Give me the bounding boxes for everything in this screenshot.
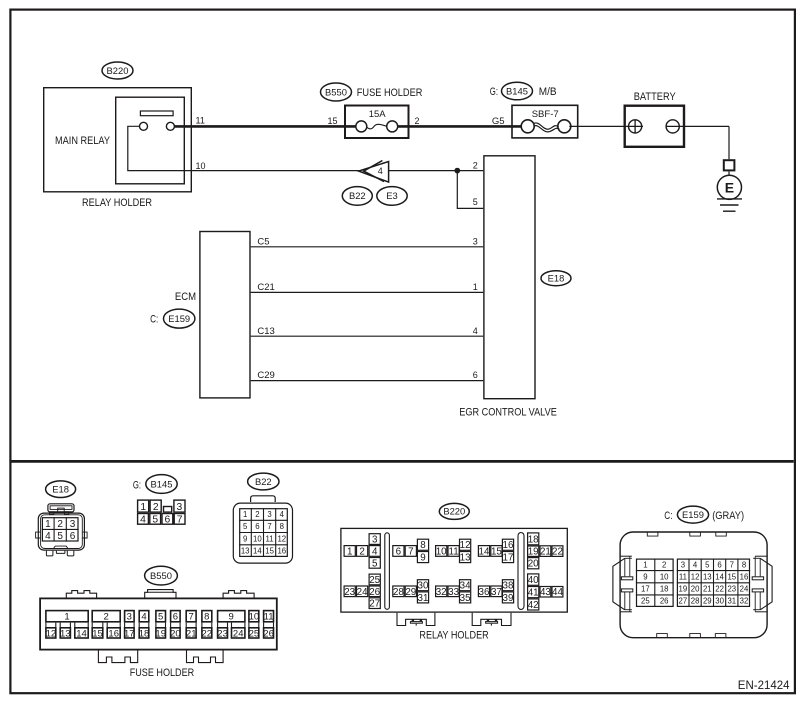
svg-text:4: 4 [378,166,383,176]
svg-text:1: 1 [140,502,146,513]
svg-text:16: 16 [740,573,749,582]
connector E159 pin grid left block [637,559,674,606]
wire junction to EGR pin 5 [457,171,483,209]
svg-text:B22: B22 [255,476,272,487]
svg-text:7: 7 [267,522,271,531]
wire battery negative to ground block [666,125,729,127]
wire ECM C13 to EGR pin 4 [251,335,484,337]
svg-text:20: 20 [528,559,539,570]
svg-text:25: 25 [369,575,380,586]
svg-text:1: 1 [45,519,51,530]
svg-text:25: 25 [249,628,260,639]
ground connector block [724,160,735,170]
svg-text:18: 18 [528,534,539,545]
svg-text:E18: E18 [52,484,69,495]
connector label B145 [502,82,533,100]
svg-text:4: 4 [473,326,478,336]
svg-text:3: 3 [267,510,271,519]
fuse holder box [345,106,409,139]
svg-text:E159: E159 [682,509,704,520]
svg-text:E: E [725,179,734,195]
svg-text:1: 1 [643,560,647,569]
svg-text:28: 28 [691,597,700,606]
svg-text:17: 17 [641,585,650,594]
svg-text:15: 15 [491,547,502,558]
connector label B550 (pinout) [145,566,178,585]
svg-text:43: 43 [540,587,551,598]
connector E159 body [620,532,767,638]
svg-text:22: 22 [552,547,563,558]
svg-text:12: 12 [277,535,286,544]
svg-text:6: 6 [717,560,721,569]
connector E18 latch ears [50,512,54,515]
svg-text:15: 15 [92,628,103,639]
relay contact right [166,122,174,130]
svg-text:M/B: M/B [539,86,557,98]
B220 pins 40-44 [528,574,539,585]
battery positive terminal [629,120,642,133]
svg-text:10: 10 [253,535,262,544]
connector E159 pin grid right block [677,559,749,606]
svg-text:16: 16 [108,628,119,639]
svg-text:38: 38 [503,581,514,592]
svg-text:19: 19 [528,547,539,558]
connector label E3 [377,187,407,206]
svg-text:32: 32 [436,587,447,598]
connector E159 right wing [755,555,768,557]
connector label E159 (pinout) [677,506,708,523]
svg-text:5: 5 [243,522,248,531]
svg-text:26: 26 [369,587,380,598]
connector E159 top bumps [647,532,658,536]
svg-text:31: 31 [418,593,429,604]
connector label B220 (pinout) [439,503,469,519]
svg-text:12: 12 [460,540,471,551]
svg-text:3: 3 [473,236,478,246]
svg-text:B145: B145 [151,478,173,489]
svg-text:6: 6 [173,612,178,623]
svg-text:19: 19 [155,628,166,639]
svg-text:17: 17 [124,628,135,639]
SBF-7 fusible link box [512,105,578,138]
svg-text:11: 11 [679,573,687,582]
svg-text:14: 14 [253,547,262,556]
connector label E159 (top) [164,309,195,328]
battery negative terminal [666,120,679,133]
svg-text:4: 4 [45,531,51,542]
svg-text:2: 2 [359,547,364,558]
svg-text:7: 7 [177,515,183,526]
wire ECM C29 to EGR pin 6 [251,380,484,382]
svg-text:C29: C29 [257,370,274,381]
EGR control valve box [484,156,535,399]
connector label B22 (top) [342,187,372,206]
svg-text:B550: B550 [325,86,347,97]
relay holder outer box [44,88,192,192]
fuse holder B550 cells row 2 [46,628,56,638]
svg-text:8: 8 [204,612,209,623]
svg-text:12: 12 [46,628,57,639]
svg-text:24: 24 [233,628,244,639]
B220 pins 18-22 [528,533,539,545]
svg-text:23: 23 [344,587,355,598]
svg-text:2: 2 [104,612,109,623]
svg-text:22: 22 [715,585,724,594]
svg-text:24: 24 [357,587,368,598]
svg-text:B220: B220 [107,65,129,76]
connector label B22 (pinout) [248,473,279,490]
svg-text:4: 4 [141,612,146,623]
svg-text:8: 8 [742,560,746,569]
connector label B550 [321,83,352,101]
connector B22 body [233,503,292,563]
svg-text:1: 1 [347,547,352,558]
wire relay pin 10 (internal U-path to diode) [128,126,359,170]
svg-text:16: 16 [277,547,286,556]
connector B145 pin grid row 2 [138,514,149,525]
svg-text:11: 11 [449,547,459,558]
wire diode to EGR pin 2 [389,170,484,172]
svg-text:1: 1 [64,612,69,623]
svg-text:EN-21424: EN-21424 [738,680,790,692]
svg-text:21: 21 [540,547,551,558]
B220 pins 14-17 [478,546,489,557]
svg-text:FUSE HOLDER: FUSE HOLDER [130,667,195,679]
svg-text:G:: G: [133,479,141,491]
svg-text:5: 5 [158,612,163,623]
svg-text:2: 2 [415,116,420,126]
svg-text:8: 8 [280,522,284,531]
svg-text:18: 18 [139,628,150,639]
svg-text:15: 15 [265,547,274,556]
svg-text:11: 11 [264,612,274,623]
B220 pins 10-13 [436,546,447,557]
fuse holder B550 cell links [45,623,47,627]
svg-text:G5: G5 [492,116,505,127]
svg-text:13: 13 [241,547,250,556]
relay holder B220 bottom tab 2 [472,613,511,626]
svg-text:C:: C: [150,313,158,325]
B220 pins 32-35 [436,586,447,597]
svg-text:9: 9 [420,553,425,564]
svg-text:20: 20 [691,585,700,594]
ground symbol [717,198,742,200]
svg-text:G:: G: [490,86,498,98]
svg-text:9: 9 [643,573,647,582]
svg-text:7: 7 [189,612,194,623]
svg-text:2: 2 [57,519,63,530]
svg-text:BATTERY: BATTERY [634,91,676,103]
connector E18 body [38,513,84,550]
svg-text:10: 10 [249,612,260,623]
svg-text:3: 3 [681,560,685,569]
connector E159 bottom bumps [657,634,668,638]
svg-text:33: 33 [448,587,459,598]
svg-text:4: 4 [280,510,285,519]
B220 pins 6-9 [393,546,404,557]
B220 pins 28-31 [393,586,404,597]
svg-text:16: 16 [503,540,514,551]
SBF-7 fusible link element [521,120,534,133]
svg-text:5: 5 [152,515,158,526]
relay coil [140,111,173,116]
svg-text:3: 3 [70,519,76,530]
connector E18 pin grid [42,518,78,541]
B220 pins 23-27 [344,586,355,597]
wire ECM C5 to EGR pin 3 [251,246,484,248]
svg-text:26: 26 [660,597,669,606]
svg-text:9: 9 [229,612,234,623]
connector B145 pin grid row 1 [138,500,149,512]
svg-text:35: 35 [460,593,471,604]
wire ECM C21 to EGR pin 1 [251,291,484,293]
svg-text:39: 39 [503,593,514,604]
svg-text:(GRAY): (GRAY) [712,510,744,522]
svg-text:44: 44 [552,587,563,598]
ground node E [717,175,741,199]
connector label B220 (relay holder) [102,62,133,79]
svg-text:28: 28 [393,587,404,598]
svg-text:E159: E159 [168,313,190,324]
svg-text:26: 26 [263,628,274,639]
svg-text:4: 4 [372,547,378,558]
svg-text:9: 9 [243,535,247,544]
connector label E18 (top) [541,271,571,286]
ECM box [200,232,250,398]
relay holder B220 right slot [518,533,524,610]
connector B22 top bump [251,496,276,502]
connector E159 left wing [620,555,632,557]
svg-text:B550: B550 [150,570,172,581]
svg-text:10: 10 [196,161,206,171]
connector E18 side notches [36,532,41,538]
B220 pins 1-5 [344,546,355,557]
svg-text:B145: B145 [506,85,528,96]
svg-text:1: 1 [243,510,247,519]
svg-text:30: 30 [715,597,724,606]
svg-text:11: 11 [266,535,274,544]
svg-text:18: 18 [660,585,669,594]
junction node [455,168,460,173]
svg-text:C5: C5 [257,236,269,247]
svg-text:8: 8 [420,540,426,551]
svg-text:36: 36 [479,587,490,598]
svg-text:20: 20 [170,628,181,639]
svg-text:3: 3 [127,612,132,623]
svg-text:15A: 15A [369,109,387,120]
svg-text:21: 21 [186,628,197,639]
svg-text:5: 5 [372,558,378,569]
svg-text:FUSE HOLDER: FUSE HOLDER [357,87,423,99]
svg-text:25: 25 [641,597,650,606]
svg-text:2: 2 [473,161,478,171]
svg-text:14: 14 [715,573,724,582]
B220 pins 36-39 [478,586,489,597]
diode 4 (pass-through B22/E3) [359,162,389,183]
svg-text:C13: C13 [257,326,274,337]
svg-text:5: 5 [473,197,478,207]
fuse holder B550 top tabs [66,591,96,598]
svg-text:7: 7 [730,560,734,569]
svg-text:13: 13 [60,628,71,639]
svg-text:27: 27 [369,599,380,610]
relay holder B220 left slot [385,533,390,610]
svg-text:19: 19 [679,585,688,594]
wire relay pin 11 to fuse [175,125,357,128]
relay holder B220 bottom tab 1 [397,613,435,626]
svg-text:40: 40 [528,575,539,586]
wire SBF-7 to battery [569,125,643,127]
svg-text:30: 30 [418,581,429,592]
main relay inner box [116,97,185,184]
svg-text:13: 13 [703,573,712,582]
fuse holder B550 cells row 1 [46,611,88,622]
svg-text:42: 42 [528,600,539,611]
svg-text:B220: B220 [443,506,465,517]
svg-text:MAIN RELAY: MAIN RELAY [55,135,110,147]
svg-text:37: 37 [491,587,502,598]
svg-text:7: 7 [408,547,413,558]
svg-text:11: 11 [196,116,205,126]
svg-text:10: 10 [436,547,447,558]
svg-text:22: 22 [202,628,213,639]
svg-text:3: 3 [372,535,378,546]
svg-text:13: 13 [460,553,471,564]
svg-text:C:: C: [664,510,672,522]
connector label B145 (pinout) [146,475,177,494]
svg-text:E3: E3 [386,190,397,201]
svg-text:B22: B22 [349,190,366,201]
svg-text:5: 5 [705,560,710,569]
svg-text:EGR CONTROL VALVE: EGR CONTROL VALVE [459,407,557,419]
svg-text:12: 12 [691,573,700,582]
battery box [625,106,684,147]
svg-text:21: 21 [703,585,712,594]
fuse holder B550 bottom tabs [98,651,137,663]
svg-text:RELAY HOLDER: RELAY HOLDER [82,197,152,209]
connector E18 top tab [48,504,74,512]
svg-text:4: 4 [140,515,146,526]
svg-text:SBF-7: SBF-7 [532,109,559,120]
connector label E18 (pinout) [46,481,76,498]
svg-text:E18: E18 [548,273,565,284]
svg-text:C21: C21 [257,282,274,293]
svg-text:23: 23 [217,628,228,639]
fuse element [356,121,367,132]
svg-text:6: 6 [396,547,402,558]
svg-text:4: 4 [693,560,698,569]
svg-text:6: 6 [165,515,171,526]
svg-text:15: 15 [327,116,337,126]
svg-text:2: 2 [255,510,259,519]
svg-text:10: 10 [660,573,669,582]
svg-text:5: 5 [57,531,63,542]
svg-text:14: 14 [479,547,490,558]
connector B22 pin grid [240,509,288,557]
svg-text:29: 29 [405,587,416,598]
svg-text:34: 34 [460,581,471,592]
svg-text:2: 2 [662,560,666,569]
svg-text:ECM: ECM [175,291,196,303]
svg-text:15: 15 [727,573,736,582]
svg-text:6: 6 [70,531,76,542]
svg-text:2: 2 [153,502,159,513]
svg-text:29: 29 [703,597,712,606]
svg-text:27: 27 [679,597,688,606]
svg-text:31: 31 [727,597,736,606]
relay contact left [140,122,148,130]
relay holder B220 main box [341,528,567,612]
svg-text:17: 17 [503,553,514,564]
wire fuse to SBF-7 [398,125,521,128]
connector E18 bottom tabs [53,546,68,549]
svg-text:3: 3 [177,502,183,513]
svg-text:1: 1 [473,282,478,292]
svg-text:32: 32 [740,597,749,606]
fuse holder B550 main box [40,598,277,649]
svg-text:41: 41 [528,588,539,599]
svg-text:14: 14 [76,628,87,639]
svg-text:23: 23 [727,585,736,594]
svg-text:6: 6 [255,522,259,531]
svg-text:RELAY HOLDER: RELAY HOLDER [419,630,489,642]
svg-text:6: 6 [473,370,478,380]
svg-text:24: 24 [740,585,749,594]
